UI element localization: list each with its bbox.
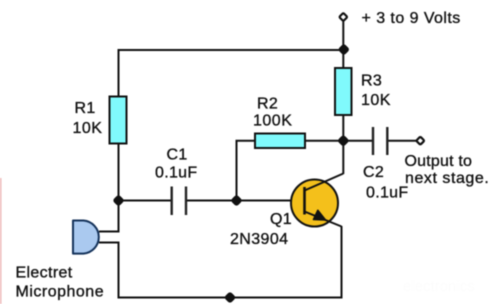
svg-text:+ 3 to 9 Volts: + 3 to 9 Volts (362, 10, 461, 27)
resistor R3 (335, 68, 352, 115)
junction supply node (339, 44, 349, 54)
output terminal (open diamond) (416, 137, 424, 145)
wire supply terminal vertical (342, 21, 344, 68)
transistor Q1 body (291, 174, 343, 227)
svg-text:0.1uF: 0.1uF (366, 185, 408, 202)
wire emitter vertical down to ground rail (341, 226, 343, 299)
resistor R1 (110, 97, 127, 144)
junction collector node (338, 135, 348, 145)
wire mic bottom down to ground rail (118, 242, 120, 298)
wire R2 right to junction (305, 140, 343, 142)
wire mic top tab horizontal (99, 231, 119, 233)
svg-text:10K: 10K (361, 92, 391, 109)
junction base node (C1/R2/base) (231, 195, 241, 205)
wire R1 bottom through node to mic top tab (118, 144, 120, 233)
svg-text:Q1: Q1 (270, 211, 292, 228)
wire mic bottom tab horizontal (99, 242, 119, 244)
supply terminal (open diamond) (339, 13, 347, 21)
wire top horizontal from R1 top to supply node (119, 50, 344, 97)
junction ground rail node (225, 292, 235, 302)
wire base node to transistor base (237, 200, 305, 202)
svg-text:C2: C2 (363, 164, 384, 181)
svg-text:R2: R2 (257, 96, 278, 113)
wire C1 right plate to base node (187, 200, 237, 202)
resistor R2 (255, 134, 305, 149)
svg-text:Output to: Output to (405, 153, 473, 170)
svg-text:10K: 10K (73, 120, 103, 137)
electret microphone body (73, 221, 99, 254)
wire R3 bottom to junction (342, 115, 344, 141)
wire left node to C1 left plate (119, 200, 172, 202)
wire bottom ground rail (118, 297, 342, 299)
svg-text:R1: R1 (75, 100, 96, 117)
capacitor C1 plates (172, 187, 186, 216)
svg-text:Microphone: Microphone (16, 283, 105, 300)
svg-text:2N3904: 2N3904 (230, 231, 288, 248)
wire C2 right plate to output terminal (388, 140, 417, 142)
svg-text:0.1uF: 0.1uF (155, 165, 197, 182)
wire collector vertical from junction (342, 141, 344, 174)
svg-text:R3: R3 (361, 73, 382, 90)
wire R2 left down to base node (237, 141, 256, 201)
svg-text:Electret: Electret (16, 265, 73, 282)
wire junction to C2 left plate (343, 140, 372, 142)
svg-text:electronics: electronics (403, 278, 475, 295)
svg-text:next stage.: next stage. (405, 170, 489, 187)
capacitor C2 plates (373, 127, 387, 155)
red scan artifact line at left edge (0, 178, 2, 304)
svg-text:100K: 100K (253, 113, 292, 130)
svg-text:C1: C1 (167, 147, 188, 164)
junction left node (R1/C1/mic) (113, 195, 123, 205)
